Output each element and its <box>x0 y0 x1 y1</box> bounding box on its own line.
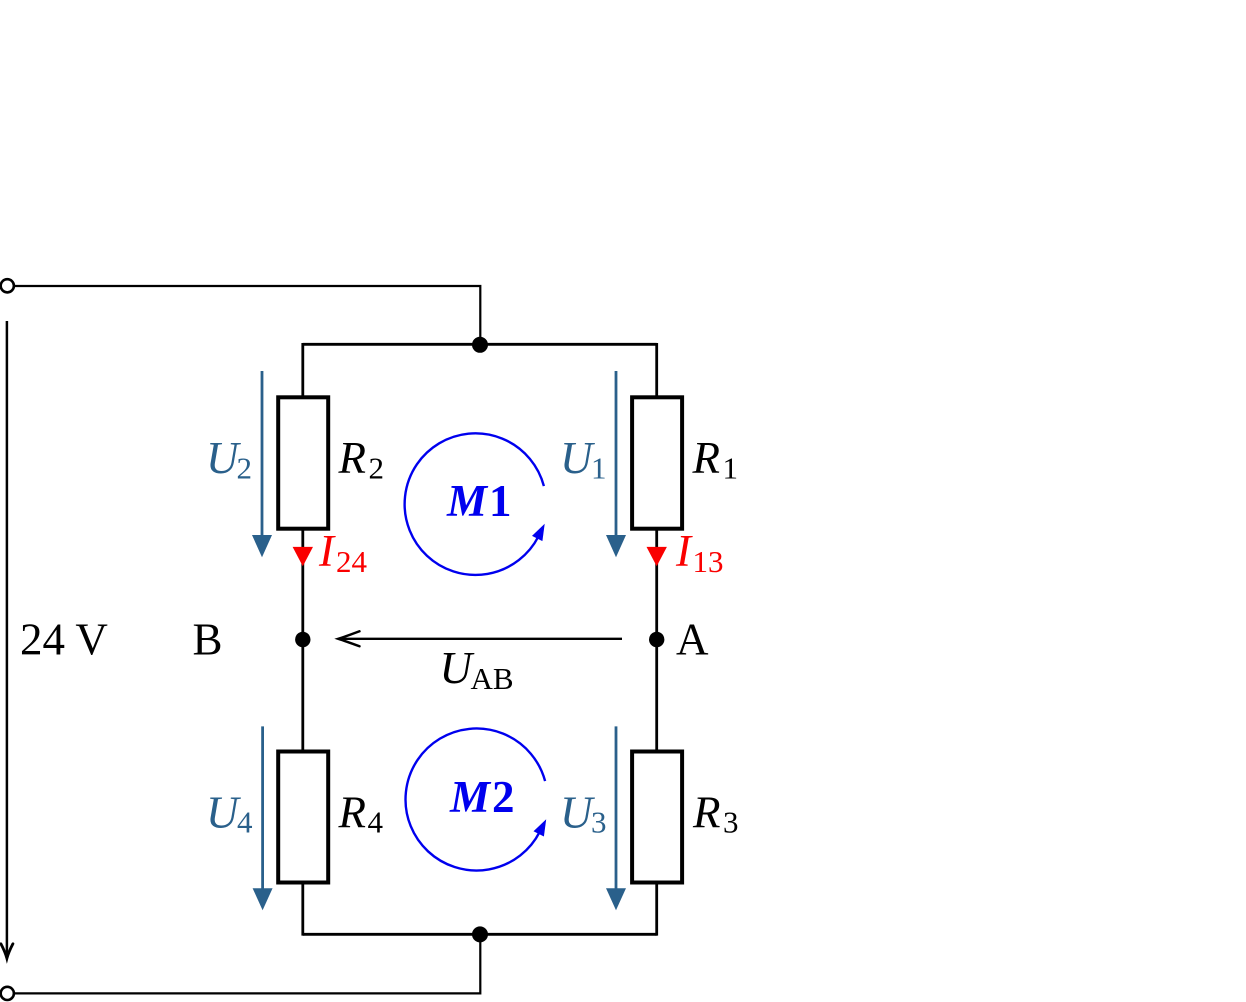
junction (top) <box>472 337 488 353</box>
mesh arrow M1 (head) <box>532 524 545 541</box>
svg-text:A: A <box>676 615 709 665</box>
svg-text:M1: M1 <box>446 476 512 526</box>
mesh arrow M2 (arc) <box>406 728 546 870</box>
voltage arrow U3 (head) <box>606 888 626 910</box>
wire: bridge top rail <box>303 343 657 346</box>
wire: left branch (through R2, node B, R4) <box>301 343 304 936</box>
current arrow I24 (red head on left branch) <box>293 547 313 566</box>
svg-text:M2: M2 <box>449 772 515 822</box>
wire: bridge bottom rail <box>303 933 657 936</box>
voltage arrow U4 (head) <box>253 888 273 910</box>
voltage arrow U2 (head) <box>252 535 272 557</box>
mesh arrow M2 (head) <box>534 819 547 836</box>
resistor R1 (box) <box>632 397 682 528</box>
wire: top feed from source terminal to bridge top <box>15 286 481 344</box>
voltage arrow U2 (shaft) <box>261 371 264 537</box>
mesh arrow M1 (arc) <box>405 433 544 575</box>
node A <box>649 632 664 647</box>
voltage arrow U1 (shaft) <box>615 371 618 537</box>
current arrow I13 (red head on right branch) <box>647 547 667 566</box>
resistor R3 (box) <box>632 752 682 883</box>
svg-text:24 V: 24 V <box>20 615 108 665</box>
resistor R4 (box) <box>278 752 328 883</box>
voltage arrow U4 (shaft) <box>261 726 264 890</box>
voltage source arrow 24 V (shaft) <box>6 321 9 955</box>
junction (bottom) <box>472 926 488 942</box>
wire: right branch (through R1, node A, R3) <box>655 343 658 936</box>
node B <box>295 632 310 647</box>
voltage source arrow 24 V (arrowhead) <box>1 944 13 959</box>
svg-text:B: B <box>193 615 223 665</box>
arrow U_AB (shaft) <box>341 638 622 640</box>
terminal (top left, open circle) <box>1 279 14 292</box>
voltage arrow U3 (shaft) <box>615 726 618 890</box>
terminal (bottom left, open circle) <box>1 987 14 1000</box>
voltage arrow U1 (head) <box>606 535 626 557</box>
wire: bottom feed from bridge bottom to source terminal <box>15 934 481 993</box>
resistor R2 (box) <box>278 397 328 528</box>
arrow U_AB (head) <box>338 631 359 646</box>
